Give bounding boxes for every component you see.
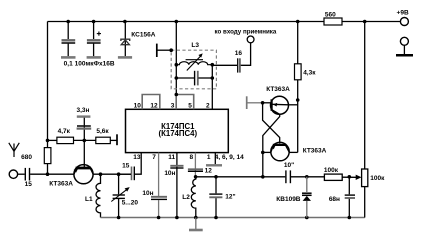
transistor Q1 KT363A	[74, 140, 93, 183]
node trimmer top	[117, 172, 121, 176]
chassis bar for R5,6k	[116, 134, 118, 145]
node 68n	[348, 175, 352, 179]
node rail varicap	[305, 216, 309, 220]
ground bar below common terminal	[396, 54, 413, 57]
wire collector Q1 to tank	[93, 173, 131, 175]
svg-text:КТ363А: КТ363А	[303, 147, 327, 154]
svg-text:L1: L1	[85, 196, 93, 203]
node junction top rail / L3 branch	[175, 20, 179, 24]
svg-text:5...20: 5...20	[122, 199, 139, 206]
capacitor 16	[238, 58, 240, 72]
wire Q2 emitter to 4,3k node	[288, 104, 297, 106]
terminal to receiver input	[247, 36, 254, 43]
wire IC pin 7 down	[158, 153, 160, 196]
resistor 680	[44, 148, 51, 164]
node Q2 emitter junction	[296, 98, 300, 102]
capacitor 15 at pin 13	[132, 167, 135, 181]
svg-text:7: 7	[152, 154, 156, 161]
svg-text:ко входу приемника: ко входу приемника	[215, 29, 277, 36]
wiper arrow of potentiometer	[356, 175, 362, 180]
wire potentiometer branch vertical	[364, 22, 366, 170]
wire Q3 collector to 4,3k branch	[289, 151, 298, 153]
wire cross coupling Q2 collector to lower node	[263, 114, 280, 152]
wire terminal common to ground	[403, 45, 405, 54]
node L3 capacitor left	[175, 76, 179, 80]
capacitor C1 0,1	[62, 22, 76, 57]
node junction top rail / potentiometer branch	[363, 20, 367, 24]
node rail L2	[194, 216, 198, 220]
wire capacitor pin7 to ground rail	[158, 200, 160, 218]
wire rail to chassis ground	[195, 218, 197, 230]
node rail cap 12"	[214, 216, 218, 220]
svg-text:(К174ПС4): (К174ПС4)	[159, 129, 198, 138]
varicap diode KB109B	[302, 177, 312, 218]
node pin3 link to L3 branch	[175, 93, 179, 97]
node shield corner	[169, 48, 173, 52]
wire capacitor 16 to output terminal	[241, 43, 251, 65]
resistor 4,3k	[295, 64, 302, 80]
svg-text:12": 12"	[225, 194, 235, 201]
node rail trimmer	[117, 216, 121, 220]
wire L3 branch from rail down to pin 3 link	[175, 22, 177, 95]
wire node to Q3 emitter	[263, 151, 271, 153]
wire 100k to wiper	[342, 176, 356, 178]
terminal common	[400, 37, 408, 45]
ground below VD1	[118, 56, 132, 59]
wire R5,6k to chassis	[110, 139, 116, 141]
node L3 capacitor right	[211, 76, 215, 80]
svg-text:1: 1	[207, 154, 211, 161]
zener diode VD1 KC156A	[121, 22, 130, 57]
trimmer capacitor 5...20	[111, 174, 129, 217]
chassis bar for shield	[156, 44, 158, 57]
capacitor 3,3n base bypass	[77, 126, 92, 140]
capacitor 10n at pin 11	[170, 166, 183, 168]
svg-text:8: 8	[189, 154, 193, 161]
core bar of L3	[186, 59, 203, 61]
wire IC pin 8 down	[194, 153, 196, 177]
svg-text:5,6к: 5,6к	[96, 128, 109, 135]
svg-text:16: 16	[235, 50, 243, 57]
svg-text:3,3н: 3,3н	[77, 107, 90, 114]
wire shield to chassis	[157, 49, 171, 51]
wire L3 tank bottom right	[198, 77, 212, 79]
wire IC pin 13 down and left	[135, 153, 141, 175]
resistor R 4,7k	[57, 137, 74, 143]
svg-text:560: 560	[325, 11, 336, 18]
wire R4,7k to base node	[74, 139, 96, 141]
wire potentiometer bottom to rail	[364, 187, 366, 218]
node base bias	[83, 139, 87, 143]
capacitor 68n	[345, 177, 355, 218]
ground above 3,3n	[77, 115, 91, 117]
inductor L1	[96, 174, 101, 217]
wire 12" branch	[215, 177, 217, 194]
node varicap	[305, 175, 309, 179]
svg-text:10н: 10н	[142, 190, 153, 197]
wire L3 right node down to IC pin 2	[211, 65, 213, 110]
wire main heterodyne line	[196, 176, 286, 178]
wire to coupling capacitor 16	[212, 64, 237, 67]
svg-text:11: 11	[168, 154, 175, 161]
transistor Q2 KT363A	[271, 96, 289, 114]
wire 3,3n to ground	[83, 117, 85, 125]
svg-text:15: 15	[122, 162, 130, 169]
capacitor C2 100uF electrolytic	[87, 22, 101, 57]
capacitor 10" coupling	[286, 170, 291, 183]
transistor Q3 KT363A	[271, 142, 289, 160]
resistor R 5,6k	[96, 137, 111, 143]
capacitor 15 antenna input	[25, 168, 29, 181]
wire left vertical branch	[47, 22, 49, 175]
chassis bar at Q2 base	[246, 96, 248, 109]
svg-text:2: 2	[206, 103, 210, 110]
node Q3 emitter left	[261, 151, 265, 155]
node main line L2 pin8	[194, 175, 198, 179]
shield box of L3 (dashed)	[171, 50, 216, 89]
svg-text:КС156А: КС156А	[131, 31, 155, 38]
svg-text:КВ109В: КВ109В	[276, 196, 301, 203]
node main line 12"	[214, 175, 218, 179]
jumper link pins 10-12	[142, 95, 160, 110]
wire capacitor 15 to oscillator tank	[119, 173, 131, 175]
wire 10" to varicap node	[291, 176, 324, 178]
svg-text:4, 6, 9, 14: 4, 6, 9, 14	[215, 154, 244, 161]
node junction top rail / R 4.3k branch	[296, 20, 300, 24]
capacitor 12 at pin 8	[188, 169, 203, 171]
svg-text:12: 12	[150, 103, 158, 110]
potentiometer 100k	[362, 169, 368, 187]
wire C15 to emitter node	[30, 173, 74, 175]
terminal +9V	[400, 18, 408, 26]
svg-text:100мкФх16В: 100мкФх16В	[75, 61, 115, 68]
op-amp U1 K174PS1 IC box	[126, 109, 229, 152]
node L3 coil left	[175, 63, 179, 67]
wire divider left to R 4,7k	[48, 139, 57, 141]
svg-text:100к: 100к	[370, 175, 385, 182]
ground rail bottom	[101, 217, 365, 219]
svg-text:3: 3	[171, 103, 175, 110]
svg-text:5: 5	[188, 103, 192, 110]
svg-text:100к: 100к	[324, 167, 339, 174]
wire base node to Q2	[263, 102, 272, 104]
svg-text:+9В: +9В	[397, 10, 409, 17]
resistor 100k horizontal	[324, 174, 342, 180]
wire IC pins 1,4,6,9,14 to ground	[214, 153, 216, 165]
svg-text:15: 15	[25, 181, 33, 188]
jumper link pins 3-5	[176, 95, 194, 110]
svg-text:12: 12	[205, 167, 213, 174]
chassis ground bar bottom	[189, 229, 203, 232]
capacitor 12"	[209, 194, 222, 197]
svg-text:10: 10	[134, 103, 142, 110]
node L1 top	[99, 172, 103, 176]
node Q2 base	[261, 101, 265, 105]
arrow of adjustable L3	[187, 53, 203, 70]
ground below C1	[61, 56, 76, 59]
ground below C2	[87, 56, 101, 59]
svg-text:4,7к: 4,7к	[58, 128, 71, 135]
node rail pin7 cap	[157, 216, 161, 220]
svg-text:4,3к: 4,3к	[303, 69, 316, 76]
wire cross coupling Q2 base to Q3 base	[263, 103, 280, 144]
ground bar pins 1,4,6,9,14	[206, 164, 222, 166]
capacitor 10n at pin 7	[151, 197, 167, 200]
svg-text:L2: L2	[182, 194, 190, 201]
node emitter / 680	[46, 172, 50, 176]
inductor L2	[191, 177, 196, 218]
antenna symbol	[9, 143, 19, 157]
node rail cap 68n	[348, 216, 352, 220]
wire 12" to rail	[215, 198, 217, 217]
terminal antenna input	[9, 170, 17, 178]
node rail pin11	[175, 216, 179, 220]
svg-text:10": 10"	[284, 162, 294, 169]
svg-text:10н: 10н	[164, 170, 175, 177]
resistor 560	[324, 18, 342, 25]
svg-text:13: 13	[133, 154, 141, 161]
wire terminal to C15	[18, 173, 25, 175]
node junction top rail / C2	[92, 20, 96, 24]
svg-text:L3: L3	[191, 42, 199, 49]
node bias divider left	[46, 139, 50, 143]
svg-text:680: 680	[21, 154, 32, 161]
node L3 coil right	[211, 63, 215, 67]
node junction top rail / VD1	[123, 20, 127, 24]
wire top supply rail	[48, 21, 401, 23]
svg-text:КТ363А: КТ363А	[266, 86, 290, 93]
svg-text:0,1: 0,1	[64, 61, 73, 68]
svg-text:68н: 68н	[329, 196, 340, 203]
inductor L3 coil	[176, 62, 212, 65]
wire chassis to Q2 base node	[248, 102, 263, 104]
node junction top rail / C1	[66, 20, 70, 24]
wire IC pin 11 down to rail	[176, 153, 178, 218]
wire 4,3k branch vertical	[297, 22, 299, 153]
capacitor inside L3 tank	[195, 71, 198, 86]
node main line Q3	[261, 175, 265, 179]
svg-text:КТ363А: КТ363А	[49, 180, 73, 187]
wire L3 tank bottom left	[176, 77, 194, 79]
wire node down to main line	[262, 152, 264, 176]
